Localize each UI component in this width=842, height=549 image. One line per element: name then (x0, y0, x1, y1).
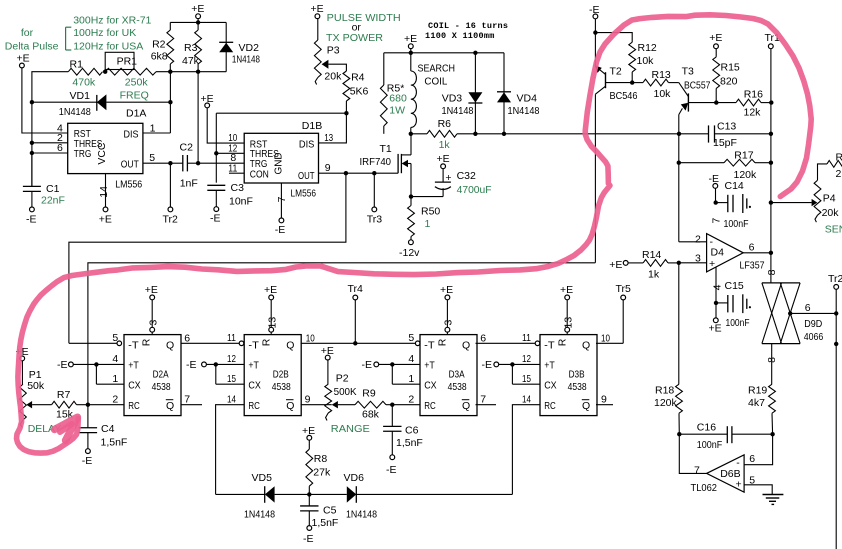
capacitor C2 1nF (170, 141, 198, 189)
svg-text:-12v: -12v (399, 247, 420, 259)
wire/circle D2A pin5 (-T) (69, 341, 122, 346)
wire -E to R12 top (595, 33, 632, 43)
node +E (R8) (302, 425, 315, 440)
svg-text:Q: Q (286, 400, 294, 412)
resistor R9 68k (338, 387, 392, 420)
junction Tr2 rail lower (834, 342, 838, 346)
svg-text:+E: +E (709, 323, 722, 335)
wire OUT pin9 to T1 gate (319, 172, 399, 174)
svg-text:68k: 68k (362, 409, 380, 421)
svg-text:7: 7 (711, 218, 723, 224)
svg-text:1W: 1W (389, 105, 405, 117)
svg-text:14: 14 (522, 393, 531, 405)
svg-text:15: 15 (227, 373, 236, 385)
diode VD3 1N4148 (442, 53, 483, 134)
svg-text:PULSE WIDTH: PULSE WIDTH (327, 12, 401, 24)
svg-text:15pF: 15pF (713, 137, 737, 149)
junction C16/R19 (770, 432, 774, 436)
resistor R13 10k (632, 69, 679, 100)
svg-text:-E: -E (275, 224, 286, 236)
junction OUT9 feedback (344, 171, 348, 175)
svg-text:11: 11 (227, 332, 236, 344)
transistor T3 BC557 (679, 65, 711, 114)
svg-text:CX: CX (128, 380, 141, 392)
svg-text:R50: R50 (421, 205, 440, 217)
svg-text:+E: +E (145, 284, 158, 296)
transistor T1 IRF740 (MOSFET) (360, 143, 412, 173)
junction T1 source / C32 / R50 (409, 194, 413, 198)
wire D3A RC pin2 (392, 404, 420, 406)
svg-text:R14: R14 (642, 249, 661, 261)
junction D4 out / Tr1 rail (769, 251, 773, 255)
svg-text:11: 11 (228, 162, 237, 174)
node +E (search coil) (404, 33, 417, 48)
wire D2A Q7 stub (181, 404, 202, 406)
junction Tr3 branch (372, 171, 376, 175)
svg-text:1N4148: 1N4148 (508, 105, 540, 117)
svg-text:15: 15 (522, 373, 531, 385)
svg-text:-T: -T (248, 339, 259, 351)
svg-text:1nF: 1nF (180, 178, 198, 190)
svg-text:10k: 10k (637, 55, 655, 67)
potentiometer P1 50k DELAY (20, 361, 62, 435)
svg-text:4: 4 (408, 353, 414, 365)
resistor R19 4k7 (748, 384, 775, 434)
svg-text:1N4148: 1N4148 (232, 53, 260, 65)
wire D3A Q6 to D3B pin11 (476, 341, 540, 346)
svg-text:for: for (21, 27, 34, 39)
svg-text:C2: C2 (180, 141, 194, 153)
svg-text:P4: P4 (823, 193, 836, 205)
resistor R12 10k (629, 42, 657, 83)
svg-text:100nF: 100nF (724, 218, 749, 230)
svg-text:7: 7 (276, 196, 288, 202)
svg-text:C14: C14 (725, 180, 744, 192)
svg-text:-E: -E (210, 213, 221, 225)
svg-text:1100 X 1100mm: 1100 X 1100mm (425, 31, 495, 41)
junction R1/PR1 (103, 70, 107, 74)
potentiometer P4 20k SENS (814, 164, 842, 236)
svg-text:-E: -E (709, 173, 720, 185)
wire DIS pin1 (143, 132, 171, 134)
svg-text:R18: R18 (655, 385, 674, 397)
potentiometer P3 20k (314, 19, 342, 85)
svg-text:D1B: D1B (302, 120, 322, 132)
svg-text:RC: RC (248, 400, 260, 412)
svg-text:R12: R12 (638, 42, 657, 54)
IC D3A 4538 monostable (420, 335, 477, 416)
svg-text:-E: -E (362, 359, 373, 371)
svg-text:-E: -E (186, 359, 197, 371)
wire C14 row to P4 wiper (771, 202, 812, 204)
junction R18/C16 (677, 432, 681, 436)
svg-text:RANGE: RANGE (331, 423, 370, 435)
node -E (C1) (26, 207, 37, 225)
junction R16/Tr1 rail (769, 100, 773, 104)
resistor R16 12k (736, 89, 771, 119)
svg-text:-: - (736, 457, 740, 469)
node +E (R15) (709, 32, 722, 48)
svg-text:+T: +T (248, 359, 259, 371)
wire DIS rail (R2 bottom to pin1) (169, 72, 171, 133)
svg-text:Tr3: Tr3 (367, 213, 383, 225)
node -E (C14) (709, 173, 720, 189)
wire D3B pin13 (565, 300, 570, 335)
svg-text:-T: -T (128, 339, 139, 351)
node +E (C15) (709, 303, 722, 335)
capacitor C32 4700uF electrolytic (411, 169, 492, 197)
svg-text:CX: CX (544, 380, 557, 392)
svg-text:6: 6 (184, 332, 190, 344)
svg-text:VD1: VD1 (70, 90, 91, 102)
resistor R6 1k (427, 118, 457, 151)
node -E (D3B pin12) (482, 359, 499, 371)
annotation: for Delta Pulse frequency notes (5, 15, 152, 53)
resistor R15 820 (713, 49, 740, 103)
svg-text:1,5nF: 1,5nF (101, 437, 128, 449)
svg-text:SEARCH: SEARCH (418, 63, 456, 75)
node -E (D2A pin4) (57, 359, 73, 371)
svg-text:C13: C13 (717, 121, 736, 133)
capacitor C15 100nF (716, 280, 751, 329)
svg-text:9: 9 (305, 393, 311, 405)
svg-text:D6B: D6B (720, 468, 740, 480)
svg-text:2: 2 (112, 393, 118, 405)
svg-text:OUT: OUT (121, 158, 139, 170)
P2 wiper arrow (332, 401, 338, 408)
svg-text:VD2: VD2 (239, 42, 260, 54)
junction R2 bottom (168, 70, 172, 74)
wire VD6 row right (356, 493, 512, 495)
svg-text:R2: R2 (152, 39, 166, 51)
svg-text:820: 820 (720, 75, 738, 87)
pink freehand annotation loop (right) (17, 15, 812, 453)
node +E (D1B RST) (201, 93, 214, 108)
svg-text:LM556: LM556 (115, 179, 142, 191)
svg-text:Q: Q (166, 339, 174, 351)
resistor R1 470k (68, 59, 102, 89)
svg-text:D9D: D9D (804, 318, 822, 330)
svg-text:Q: Q (582, 400, 590, 412)
svg-text:-T: -T (544, 339, 555, 351)
svg-text:-E: -E (303, 533, 314, 545)
diode VD5 1N4148 (244, 472, 275, 521)
junction VD1/DIS rail (168, 100, 172, 104)
svg-text:Delta Pulse: Delta Pulse (5, 40, 59, 52)
svg-text:3: 3 (443, 320, 455, 326)
svg-text:2: 2 (695, 234, 701, 246)
junction R15 bottom (714, 100, 718, 104)
svg-text:COIL: COIL (424, 75, 447, 87)
node Tr5 test point (616, 283, 632, 343)
svg-text:-E: -E (82, 455, 93, 467)
capacitor C16 100nF (679, 422, 772, 451)
resistor R7 15k (52, 389, 88, 420)
svg-text:100nF: 100nF (697, 439, 723, 451)
svg-text:7: 7 (184, 393, 190, 405)
svg-text:120k: 120k (734, 169, 758, 181)
svg-text:BC557: BC557 (684, 80, 711, 92)
svg-text:6: 6 (480, 332, 486, 344)
svg-text:1k: 1k (648, 269, 660, 281)
svg-text:47k: 47k (182, 55, 200, 67)
junction C2/R3 (196, 161, 200, 165)
wire D3B Q10 to Tr5 (596, 342, 623, 344)
wire TRG pin6 (32, 152, 68, 154)
wire 4066 pin6 to Tr2 rail (790, 312, 836, 314)
wire D6B pin6 to C16/R19 junction (744, 434, 773, 465)
svg-text:4538: 4538 (152, 381, 171, 393)
svg-text:22nF: 22nF (41, 194, 65, 206)
junction R12/R13/T2 base (630, 80, 634, 84)
wire Tr1 rail down to 4066 (770, 49, 772, 283)
svg-text:C32: C32 (457, 170, 476, 182)
wire T3 base row to R16 (688, 102, 736, 104)
svg-text:R19: R19 (748, 385, 767, 397)
op-amp D6B TL062 (691, 455, 745, 494)
svg-text:R: R (141, 338, 153, 346)
svg-text:+: + (736, 479, 742, 491)
svg-text:R9: R9 (362, 387, 376, 399)
svg-text:12k: 12k (744, 107, 762, 119)
svg-text:13: 13 (266, 317, 278, 329)
svg-text:6k8: 6k8 (151, 51, 168, 63)
inductor search coil (411, 53, 455, 134)
junction R17 left (677, 161, 681, 165)
svg-text:12: 12 (227, 353, 236, 365)
svg-text:+E: +E (311, 3, 324, 15)
svg-text:Tr4: Tr4 (348, 283, 364, 295)
svg-text:+E: +E (560, 284, 573, 296)
svg-text:D1A: D1A (126, 108, 146, 120)
diode VD2 1N4148 (219, 22, 260, 71)
junction D3A pin4 loop (390, 362, 394, 366)
svg-text:+E: +E (17, 53, 30, 65)
svg-text:+E: +E (264, 284, 277, 296)
junction -E/R12 (593, 30, 597, 34)
wire D4 pin4 stub down to C15 (715, 267, 717, 303)
wire P1 wiper to R7 (32, 404, 52, 406)
svg-text:P1: P1 (29, 369, 42, 381)
svg-text:+E: +E (609, 259, 622, 271)
wire D6B pin5 to ground (744, 485, 772, 495)
svg-text:TX POWER: TX POWER (326, 32, 383, 44)
node Tr2 test point (right) (828, 273, 842, 289)
svg-text:5K6: 5K6 (350, 85, 369, 97)
svg-text:12: 12 (522, 353, 531, 365)
svg-text:10k: 10k (654, 88, 672, 100)
svg-text:SENS: SENS (825, 224, 842, 236)
svg-text:50k: 50k (27, 380, 45, 392)
node Tr3 test point (367, 173, 383, 225)
junction R3 bottom (196, 70, 200, 74)
node +E (D2A pin3) (145, 284, 158, 300)
junction R7/C4/RC2 (86, 403, 90, 407)
resistor R18 120k (654, 384, 682, 434)
node -E (C5) (303, 526, 314, 545)
wire T2 collector rail down to long wire (594, 94, 596, 263)
svg-text:3: 3 (147, 320, 159, 326)
junction VD3 top (473, 51, 477, 55)
svg-text:R13: R13 (652, 69, 671, 81)
svg-text:4700uF: 4700uF (457, 184, 492, 196)
node -E (D2B pin12) (186, 359, 206, 371)
svg-text:CX: CX (424, 380, 437, 392)
node -E (C6) (386, 455, 397, 476)
wire CON pin11 stub (229, 172, 244, 174)
svg-text:R: R (557, 338, 569, 346)
resistor R8 27k (306, 440, 331, 494)
svg-text:VD5: VD5 (252, 472, 273, 484)
capacitor C3 10nF (207, 182, 253, 208)
junction Tr4 (353, 341, 357, 345)
svg-text:R: R (261, 338, 273, 346)
svg-text:-T: -T (424, 339, 435, 351)
svg-text:D3A: D3A (449, 369, 465, 381)
svg-text:1k: 1k (439, 139, 451, 151)
svg-text:RC: RC (424, 400, 436, 412)
op-amp D4 LF357 (707, 234, 765, 272)
wire D4 pin2 (679, 241, 707, 243)
svg-text:500K: 500K (334, 386, 357, 398)
wire VD1 row right (106, 101, 170, 103)
svg-text:-E: -E (26, 213, 37, 225)
wire -E to D2B pin12/pin15 (206, 364, 244, 384)
svg-text:120Hz for USA: 120Hz for USA (73, 40, 143, 52)
svg-text:14: 14 (227, 393, 236, 405)
IC D2A 4538 monostable (124, 335, 181, 416)
svg-text:Tr5: Tr5 (616, 283, 632, 295)
svg-text:300Hz for XR-71: 300Hz for XR-71 (73, 15, 151, 27)
svg-text:13: 13 (562, 317, 574, 329)
wire TRG pin8 of D1B (198, 162, 244, 164)
junction THRES pin12 (214, 151, 218, 155)
wire D3B Q9 stub (596, 404, 613, 406)
node +E (R14) (609, 259, 628, 271)
capacitor C5 1,5nF (300, 494, 338, 529)
svg-text:4: 4 (712, 284, 724, 290)
junction R9/C6/D3A pin2 (390, 403, 394, 407)
svg-text:100Hz for UK: 100Hz for UK (73, 27, 136, 39)
wire -E to +T pin4 and CX pin1 (73, 364, 124, 384)
svg-text:4k7: 4k7 (748, 397, 765, 409)
svg-text:Q: Q (462, 400, 470, 412)
svg-text:10: 10 (601, 332, 610, 344)
wire long run (T2 rail to bottom timers) (88, 263, 595, 405)
svg-text:5: 5 (149, 152, 155, 164)
junction VD3 bottom (473, 132, 477, 136)
resistor R4 5K6 (343, 71, 369, 113)
svg-text:VD4: VD4 (517, 92, 538, 104)
svg-text:+E: +E (440, 284, 453, 296)
svg-text:Q: Q (166, 400, 174, 412)
junction C14 left (714, 200, 718, 204)
wire 4066 bottom to R19 (771, 344, 773, 385)
wire pin 14 to +E terminal (105, 174, 107, 207)
IC D1A LM556 (first half) (68, 108, 147, 191)
svg-text:R8: R8 (314, 453, 328, 465)
node +E (P1) (16, 346, 29, 361)
svg-text:BC546: BC546 (610, 90, 638, 102)
node -E (C3) (210, 207, 221, 225)
junction T3/C13 row (677, 132, 681, 136)
wire R14 junction down to R18 (678, 263, 680, 384)
node +E (pin14) (99, 207, 112, 225)
node +E (D3B pin13) (560, 284, 573, 300)
svg-text:+E: +E (99, 213, 112, 225)
junction coil bottom / T1 drain (409, 132, 413, 136)
node Tr1 test point (765, 32, 781, 48)
wire T3 emitter down to C13 row (678, 115, 680, 134)
P3 wiper arrow (322, 60, 329, 69)
junction OUT/Tr2 (168, 161, 172, 165)
wire D6B pin7 to R18/C16 junction (679, 434, 706, 473)
node Tr4 test point (348, 283, 364, 343)
capacitor C13 15pF (679, 121, 771, 150)
svg-text:VD3: VD3 (442, 93, 463, 105)
wire D4 output pin6 (743, 252, 771, 254)
svg-text:10: 10 (306, 332, 315, 344)
wire OUT9 feedback loop down-left (69, 173, 346, 343)
node +E (D3A pin3) (440, 284, 453, 300)
svg-text:1,5nF: 1,5nF (396, 437, 423, 449)
svg-text:COIL - 16 turns: COIL - 16 turns (428, 21, 508, 31)
svg-text:T2: T2 (610, 65, 622, 77)
capacitor C6 1,5nF (383, 405, 423, 455)
wire DIS pin13 (319, 113, 347, 143)
svg-text:DIS: DIS (124, 128, 139, 140)
svg-text:10nF: 10nF (229, 196, 253, 208)
svg-text:4538: 4538 (448, 381, 467, 393)
wire D2A pin3 (150, 300, 155, 335)
IC D3B 4538 monostable (540, 335, 597, 416)
svg-text:FREQ: FREQ (120, 90, 149, 102)
resistor R17 120k (679, 149, 771, 181)
svg-text:20k: 20k (822, 207, 840, 219)
svg-text:-E: -E (57, 359, 68, 371)
capacitor C1 22nF (23, 153, 65, 207)
junction THRES rail (30, 141, 34, 145)
svg-text:4066: 4066 (804, 331, 824, 343)
svg-text:DIS: DIS (299, 138, 315, 150)
node +E (P2) (321, 345, 334, 360)
svg-text:2: 2 (408, 393, 414, 405)
P1 wiper arrow (26, 401, 32, 408)
wire D3A Q7 stub (476, 404, 497, 406)
node -E (D3A pin4) (362, 359, 379, 371)
wire VD5 to R8/C5 junction (275, 493, 310, 495)
svg-text:R6: R6 (438, 118, 452, 130)
svg-text:470k: 470k (72, 77, 96, 89)
svg-text:+E: +E (191, 3, 204, 15)
wire D3A pin3 (445, 300, 450, 335)
svg-text:5: 5 (408, 332, 414, 344)
junction C14 row / Tr1 rail (769, 200, 773, 204)
svg-text:TRG: TRG (74, 148, 92, 160)
junction +E rail (196, 20, 200, 24)
wire P3 wiper to R4 (328, 64, 346, 71)
wire R1 left lead down to VD1/THRES/TRG rail (32, 72, 68, 187)
svg-text:-E: -E (386, 464, 397, 476)
pin 7 GND wire to -E (280, 183, 282, 218)
svg-text:D2B: D2B (273, 369, 289, 381)
svg-text:+T: +T (544, 359, 555, 371)
junction coil top (409, 51, 413, 55)
svg-text:CON: CON (250, 168, 269, 180)
diode VD1 1N4148 (59, 90, 107, 118)
ground (763, 495, 784, 505)
svg-text:R17: R17 (734, 149, 753, 161)
